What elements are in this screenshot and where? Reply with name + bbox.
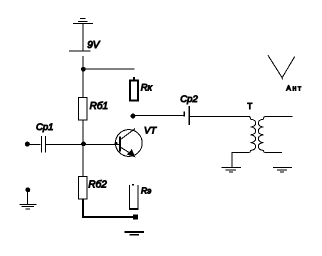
node C collector junction dot [131, 114, 136, 119]
ground 3 (input) [19, 204, 36, 209]
antenna symbol [268, 55, 295, 79]
battery GB 9V plate [69, 50, 90, 52]
wire top rail [83, 68, 134, 70]
transistor VT emitter arrow [127, 149, 135, 157]
ground bottom-center [125, 232, 145, 235]
transistor VT base bar [119, 137, 121, 152]
node B base junction dot [81, 142, 86, 147]
ground 1 (primary) [222, 167, 241, 172]
transistor base wire entry dot [114, 142, 117, 145]
wire node B to Rб2 [82, 145, 84, 176]
svg-text:Rэ: Rэ [141, 186, 151, 196]
svg-text:Cp2: Cp2 [180, 94, 198, 105]
resistor Rб2 [78, 176, 87, 198]
svg-text:VT: VT [144, 125, 157, 136]
svg-text:T: T [247, 102, 252, 111]
wire node A to Rб1 [82, 71, 84, 98]
wire Rб2 to bottom rail [82, 199, 84, 218]
input terminal dot [25, 142, 30, 147]
resistor Rэ top stub [132, 184, 134, 185]
wire terminal to ground 3 [27, 192, 29, 205]
node A junction dot [81, 67, 86, 72]
resistor Rб1 [78, 98, 87, 120]
wire Rб1 to node B [82, 120, 84, 143]
resistor Rк [130, 80, 138, 100]
wire battery to node A [82, 56, 84, 68]
wire Cp2 to transformer primary [190, 115, 250, 117]
resistor Rэ bottom edge [129, 208, 139, 210]
transistor VT circle [115, 130, 142, 157]
resistor Rэ (open top) [129, 185, 138, 209]
capacitor Cp2 [184, 106, 189, 125]
resistor Rк top stub [133, 77, 135, 80]
svg-text:Rб1: Rб1 [90, 100, 108, 112]
bottom rail end junction (square dot) [133, 215, 138, 220]
svg-text:Ант: Ант [286, 86, 302, 93]
wire bottom rail [82, 216, 133, 218]
transformer T primary winding [232, 116, 256, 167]
wire base rail [46, 143, 119, 145]
wire node C to Cp2 [135, 115, 184, 117]
svg-text:Rб2: Rб2 [88, 179, 107, 191]
transistor VT collector line [121, 129, 135, 140]
transformer T secondary winding [258, 116, 292, 152]
svg-text:Cp1: Cp1 [36, 122, 53, 133]
capacitor Cp1 [41, 136, 45, 153]
wire input to Cp1 [28, 143, 41, 145]
power rail chassis symbol (top) [73, 19, 93, 24]
second input terminal dot [25, 187, 30, 192]
svg-text:Rк: Rк [141, 82, 153, 93]
wire chassis to battery [82, 23, 84, 51]
ground 2 (secondary) [273, 167, 292, 172]
svg-text:9V: 9V [87, 40, 101, 51]
transistor VT emitter line [121, 147, 132, 154]
